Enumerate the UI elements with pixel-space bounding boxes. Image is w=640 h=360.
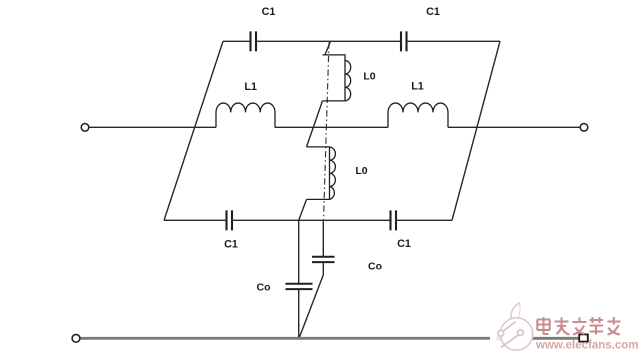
svg-text:C1: C1: [262, 6, 276, 18]
wire bottom arm diagonal to bottom edge: [299, 199, 307, 220]
capacitor C1 bottom-left: [227, 210, 233, 230]
wire input to L1 left: [89, 126, 216, 128]
svg-text:C1: C1: [426, 6, 440, 18]
watermark text CJK glyphs: [537, 317, 621, 335]
svg-text:L1: L1: [244, 81, 257, 93]
wire top edge left segment: [223, 40, 250, 42]
capacitor C1 top-right: [401, 31, 407, 51]
wire L1 right to output: [448, 126, 580, 128]
svg-text:Co: Co: [368, 260, 382, 272]
capacitor C1 bottom-right: [391, 210, 397, 230]
svg-text:L1: L1: [411, 80, 424, 92]
wire center drop upper: [298, 220, 300, 283]
wire top arm diagonal crossing middle wire: [307, 101, 323, 147]
capacitor Co right: [312, 257, 335, 262]
wire center drop lower to rail: [298, 289, 300, 338]
inductor L0 bottom: [307, 147, 336, 200]
svg-text:L0: L0: [355, 165, 367, 177]
wire top edge middle segment: [256, 40, 401, 42]
svg-text:Co: Co: [257, 281, 271, 293]
watermark logo disc: [490, 303, 533, 351]
capacitor C1 top-left: [251, 31, 257, 51]
ground rail bottom left part: [81, 337, 492, 340]
wire branch2 drop from bottom edge: [322, 220, 324, 256]
svg-text:L0: L0: [363, 70, 375, 82]
wire left lattice edge: [164, 41, 223, 220]
watermark logo route icon: [498, 322, 523, 348]
wire branch2 below cap: [322, 262, 324, 275]
wire top edge right segment: [407, 40, 501, 42]
output terminal right: [580, 124, 588, 132]
wire between L1 coils: [275, 126, 388, 128]
ground rail bottom right part: [531, 337, 579, 340]
svg-text:www.elecfans.com: www.elecfans.com: [535, 337, 638, 351]
svg-text:C1: C1: [224, 238, 238, 250]
wire bottom edge right segment: [396, 219, 452, 221]
wire branch2 diagonal to rail junction: [299, 275, 323, 339]
inductor L1 left: [216, 103, 275, 127]
input terminal left: [81, 124, 89, 132]
capacitor Co left: [286, 284, 313, 289]
wire right lattice edge: [452, 41, 500, 220]
wire bottom edge left segment: [164, 219, 227, 221]
wire top arm diagonal from top edge: [325, 41, 331, 55]
wire bottom edge middle segment: [232, 219, 391, 221]
centerline dash-dot symmetry axis: [324, 42, 330, 220]
inductor L0 top: [323, 55, 351, 101]
ground terminal left: [72, 334, 80, 342]
ground rail end square terminal: [579, 334, 588, 341]
svg-text:C1: C1: [397, 238, 411, 250]
inductor L1 right: [388, 103, 448, 127]
